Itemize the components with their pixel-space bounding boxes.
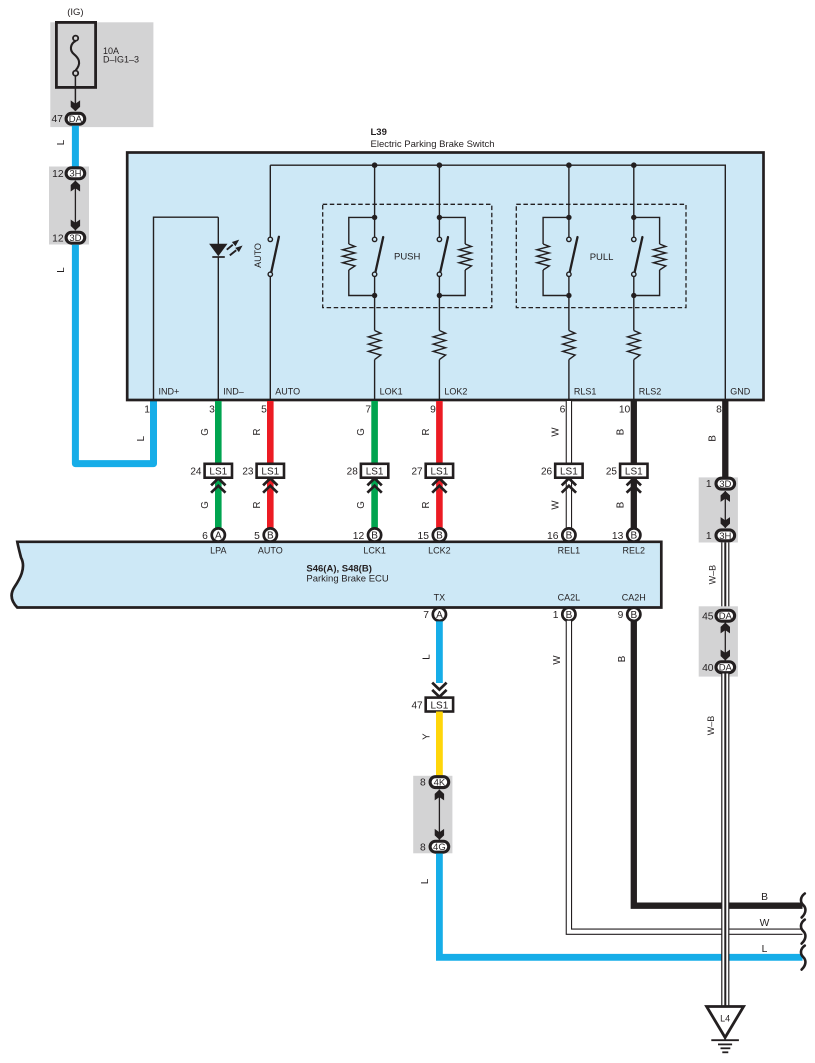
svg-text:B: B xyxy=(617,656,628,662)
svg-text:LS1: LS1 xyxy=(209,466,227,477)
svg-text:LS1: LS1 xyxy=(560,466,578,477)
pin 15 B xyxy=(418,528,446,541)
label G xyxy=(200,428,211,436)
label R xyxy=(421,502,432,509)
pin number 8 xyxy=(716,405,722,416)
label Parking Brake ECU xyxy=(306,573,389,584)
node RLS1 top xyxy=(566,215,571,220)
label W-B xyxy=(706,716,716,736)
label G xyxy=(356,428,367,436)
svg-text:26: 26 xyxy=(541,466,553,477)
pin label GND xyxy=(730,387,751,397)
pin label CA2H xyxy=(622,593,646,603)
svg-text:DA: DA xyxy=(719,663,733,674)
svg-text:6: 6 xyxy=(202,531,208,542)
svg-text:4G: 4G xyxy=(433,842,446,853)
svg-text:G: G xyxy=(200,428,211,436)
label B xyxy=(617,656,628,662)
svg-text:B: B xyxy=(761,892,768,903)
svg-text:CA2H: CA2H xyxy=(622,593,646,603)
resistor parallel RLS2 xyxy=(634,217,666,295)
node bus-LOK1 xyxy=(372,162,378,168)
svg-text:9: 9 xyxy=(430,405,436,416)
svg-text:RLS2: RLS2 xyxy=(639,387,662,397)
switch RLS2 xyxy=(632,237,643,276)
svg-text:LCK1: LCK1 xyxy=(363,546,386,556)
connector 23 LS1 xyxy=(242,464,284,493)
svg-text:G: G xyxy=(356,428,367,436)
connector 24 LS1 xyxy=(190,464,232,493)
wire LOK1 upper xyxy=(374,165,376,237)
svg-text:10: 10 xyxy=(619,405,631,416)
label B xyxy=(708,435,719,441)
svg-text:B: B xyxy=(566,610,573,621)
pin label LCK2 xyxy=(428,546,451,556)
svg-text:A: A xyxy=(436,610,443,621)
svg-text:LS1: LS1 xyxy=(366,466,384,477)
svg-text:47: 47 xyxy=(51,114,63,125)
svg-text:3D: 3D xyxy=(69,233,81,244)
wire W-B 3H to 45DA xyxy=(721,543,729,610)
svg-text:5: 5 xyxy=(261,405,267,416)
break symbol W xyxy=(801,920,805,944)
label W xyxy=(550,500,561,510)
wire L blue TX to LS1 xyxy=(436,621,443,683)
svg-text:B: B xyxy=(708,435,719,441)
svg-text:AUTO: AUTO xyxy=(253,243,263,268)
wire B black CA2H to break xyxy=(634,621,803,905)
connector 47 LS1 xyxy=(411,683,453,712)
svg-text:B: B xyxy=(630,531,637,542)
svg-text:L39: L39 xyxy=(371,127,387,138)
svg-text:IND+: IND+ xyxy=(159,387,180,397)
svg-text:LCK2: LCK2 xyxy=(428,546,451,556)
wire RLS2 lower xyxy=(633,276,635,330)
label R xyxy=(252,429,263,436)
pin label LOK1 xyxy=(380,387,403,397)
pin number 9 xyxy=(430,405,436,416)
svg-text:47: 47 xyxy=(411,700,423,711)
svg-text:TX: TX xyxy=(434,593,446,603)
svg-text:B: B xyxy=(630,610,637,621)
svg-text:B: B xyxy=(436,531,443,542)
wire IND+ branch xyxy=(154,217,219,400)
node bus-RLS2 xyxy=(631,162,637,168)
fuse 10A D-IG1-3 xyxy=(50,22,153,127)
resistor parallel RLS1 xyxy=(537,217,569,295)
pin label LOK2 xyxy=(444,387,467,397)
svg-text:W: W xyxy=(550,427,561,437)
svg-text:G: G xyxy=(200,501,211,509)
pin label REL2 xyxy=(623,546,646,556)
svg-text:45: 45 xyxy=(702,611,714,622)
wire RLS1 to pin xyxy=(568,360,570,400)
svg-text:DA: DA xyxy=(69,114,83,125)
connector 26 LS1 xyxy=(541,464,583,493)
svg-text:LPA: LPA xyxy=(210,546,226,556)
svg-text:1: 1 xyxy=(706,531,712,542)
resistor series RLS2 xyxy=(628,331,640,360)
svg-text:CA2L: CA2L xyxy=(558,593,581,603)
svg-text:D–IG1–3: D–IG1–3 xyxy=(103,54,139,64)
wire RLS2 upper xyxy=(633,165,635,237)
pin 5 B xyxy=(254,528,277,541)
label Electric Parking Brake Switch xyxy=(371,139,495,150)
wire W white LS1 to pin 16B xyxy=(566,477,572,529)
wire LOK2 to pin xyxy=(438,360,440,400)
pin number 3 xyxy=(209,405,215,416)
svg-text:W: W xyxy=(550,500,561,510)
wire R red pin5 to LS1 xyxy=(267,401,274,464)
svg-text:9: 9 xyxy=(618,610,624,621)
pin label IND+ xyxy=(159,387,180,397)
label B xyxy=(615,429,626,435)
svg-text:3: 3 xyxy=(209,405,215,416)
svg-text:12: 12 xyxy=(353,531,365,542)
svg-text:Parking Brake ECU: Parking Brake ECU xyxy=(306,573,389,584)
svg-text:L: L xyxy=(56,139,67,145)
svg-text:RLS1: RLS1 xyxy=(574,387,597,397)
pin label CA2L xyxy=(558,593,581,603)
svg-text:1: 1 xyxy=(706,479,712,490)
svg-text:7: 7 xyxy=(365,405,371,416)
node RLS2 top xyxy=(631,215,636,220)
label R xyxy=(421,429,432,436)
wire LOK1 to pin xyxy=(374,360,376,400)
svg-text:R: R xyxy=(252,502,263,509)
svg-text:7: 7 xyxy=(423,610,429,621)
pin label IND&#8211; xyxy=(223,387,244,397)
wire AUTO upper xyxy=(269,165,271,237)
wire W white CA2L to break xyxy=(569,621,803,932)
pin 13 B xyxy=(612,528,640,541)
ground L4 xyxy=(707,1007,744,1053)
resistor parallel LOK1 xyxy=(343,217,375,295)
label G xyxy=(356,501,367,509)
switch LOK2 xyxy=(437,237,448,276)
wire L blue DA to 3H xyxy=(72,126,79,168)
wire R red LS1 to pin 15B xyxy=(436,477,443,529)
wire LOK1 lower xyxy=(374,276,376,330)
svg-text:27: 27 xyxy=(411,466,423,477)
wire R red LS1 to pin 5B xyxy=(267,477,274,529)
label L xyxy=(136,435,147,441)
svg-text:A: A xyxy=(215,531,222,542)
svg-text:W: W xyxy=(760,918,770,929)
node RLS1 bottom xyxy=(566,293,571,298)
label L39 xyxy=(371,127,387,138)
wire RLS1 lower xyxy=(568,276,570,330)
wire G green LS1 to pin 6A xyxy=(215,477,222,529)
wire L blue 3D to pin 1 IND+ xyxy=(75,245,153,464)
wire Y yellow LS1 to 4K xyxy=(436,712,443,778)
resistor series RLS1 xyxy=(563,331,575,360)
component box L39 Electric Parking Brake Switch xyxy=(127,153,763,401)
svg-text:LOK2: LOK2 xyxy=(444,387,467,397)
svg-text:12: 12 xyxy=(52,233,64,244)
svg-text:L4: L4 xyxy=(720,1014,730,1024)
switch RLS1 xyxy=(567,237,578,276)
label L xyxy=(420,878,431,884)
svg-text:16: 16 xyxy=(547,531,559,542)
pin number 1 xyxy=(144,405,150,416)
node bus-RLS1 xyxy=(566,162,572,168)
svg-text:8: 8 xyxy=(420,778,426,789)
svg-text:(IG): (IG) xyxy=(67,7,83,18)
svg-text:Y: Y xyxy=(422,733,433,740)
svg-text:8: 8 xyxy=(420,842,426,853)
svg-text:12: 12 xyxy=(52,169,64,180)
svg-text:IND–: IND– xyxy=(223,387,244,397)
svg-text:1: 1 xyxy=(144,405,150,416)
svg-text:PUSH: PUSH xyxy=(394,252,421,263)
svg-text:25: 25 xyxy=(606,466,618,477)
svg-text:15: 15 xyxy=(418,531,430,542)
pin 6 A xyxy=(202,528,225,541)
svg-text:W–B: W–B xyxy=(706,716,716,736)
svg-text:28: 28 xyxy=(347,466,359,477)
svg-text:13: 13 xyxy=(612,531,624,542)
label S46(A), S48(B) xyxy=(306,564,371,575)
svg-text:W–B: W–B xyxy=(707,565,717,585)
label W xyxy=(552,655,563,665)
dashed group PUSH xyxy=(323,204,492,307)
wire LED anode xyxy=(217,217,219,244)
node LOK2 top xyxy=(437,215,442,220)
power source node (IG) xyxy=(67,7,83,18)
svg-text:B: B xyxy=(566,531,573,542)
connector pair 8 4K - 8 4G xyxy=(413,776,452,854)
pin label RLS1 xyxy=(574,387,597,397)
svg-text:R: R xyxy=(421,429,432,436)
pin number 10 xyxy=(619,405,631,416)
node RLS2 bottom xyxy=(631,293,636,298)
wire B black LS1 to pin 13B xyxy=(631,477,637,529)
wire internal top bus xyxy=(270,165,725,400)
wire W white pin6 to LS1 xyxy=(566,401,572,464)
label Y xyxy=(422,733,433,740)
svg-text:L: L xyxy=(420,878,431,884)
wire AUTO lower xyxy=(269,276,271,400)
svg-text:GND: GND xyxy=(730,387,751,397)
value label 10A D-IG1-3 xyxy=(103,46,139,65)
svg-text:40: 40 xyxy=(702,663,714,674)
wire LOK2 upper xyxy=(438,165,440,237)
svg-text:23: 23 xyxy=(242,466,254,477)
wire fuse to connector DA xyxy=(71,76,80,111)
pin 7 A xyxy=(423,608,446,621)
pin label LPA xyxy=(210,546,226,556)
svg-text:REL2: REL2 xyxy=(623,546,646,556)
svg-text:R: R xyxy=(421,502,432,509)
node bus-LOK2 xyxy=(437,162,443,168)
LED indicator D1 xyxy=(209,240,243,257)
wire LED cathode to IND- xyxy=(217,257,219,400)
svg-text:3H: 3H xyxy=(719,531,731,542)
svg-text:LS1: LS1 xyxy=(261,466,279,477)
node LOK1 bottom xyxy=(372,293,377,298)
svg-text:L: L xyxy=(422,654,433,660)
pin label TX xyxy=(434,593,446,603)
resistor series LOK2 xyxy=(433,331,445,360)
switch LOK1 xyxy=(372,237,383,276)
pin label REL1 xyxy=(558,546,581,556)
svg-text:B: B xyxy=(267,531,274,542)
svg-text:6: 6 xyxy=(560,405,566,416)
svg-text:5: 5 xyxy=(254,531,260,542)
connector 25 LS1 xyxy=(606,464,648,493)
svg-text:PULL: PULL xyxy=(590,252,614,263)
wire L blue 4G to break xyxy=(439,854,802,958)
wire B black pin10 to LS1 xyxy=(631,401,637,464)
break symbol L xyxy=(801,946,805,970)
pin 12 B xyxy=(353,528,381,541)
label L xyxy=(762,944,768,955)
label R xyxy=(252,502,263,509)
wire G green pin3 to LS1 xyxy=(215,401,222,464)
svg-text:LS1: LS1 xyxy=(431,700,449,711)
svg-text:24: 24 xyxy=(190,466,202,477)
svg-text:1: 1 xyxy=(553,610,559,621)
wire G green LS1 to pin 12B xyxy=(371,477,378,529)
pin number 6 xyxy=(560,405,566,416)
break symbol B xyxy=(801,894,805,918)
label W xyxy=(760,918,770,929)
svg-text:Electric Parking Brake Switch: Electric Parking Brake Switch xyxy=(371,139,495,150)
svg-text:REL1: REL1 xyxy=(558,546,581,556)
connector 27 LS1 xyxy=(411,464,453,493)
label L xyxy=(56,267,67,273)
label L xyxy=(422,654,433,660)
svg-text:L: L xyxy=(56,267,67,273)
pin 16 B xyxy=(547,528,575,541)
node LOK1 top xyxy=(372,215,377,220)
svg-text:LS1: LS1 xyxy=(625,466,643,477)
svg-text:LS1: LS1 xyxy=(431,466,449,477)
label W-B xyxy=(707,565,717,585)
wire G green pin7 to LS1 xyxy=(371,401,378,464)
svg-text:AUTO: AUTO xyxy=(275,387,300,397)
svg-text:B: B xyxy=(371,531,378,542)
label B xyxy=(761,892,768,903)
pin 1 B xyxy=(553,608,576,621)
switch AUTO xyxy=(268,237,279,277)
svg-text:B: B xyxy=(615,429,626,435)
connector 47 DA xyxy=(51,113,84,125)
svg-text:3D: 3D xyxy=(719,479,731,490)
label W xyxy=(550,427,561,437)
wire W-B 40DA to ground xyxy=(721,674,729,1008)
svg-text:AUTO: AUTO xyxy=(258,546,283,556)
label PUSH xyxy=(394,252,421,263)
resistor series LOK1 xyxy=(368,331,380,360)
resistor parallel LOK2 xyxy=(439,217,471,295)
node LOK2 bottom xyxy=(437,293,442,298)
pin label AUTO xyxy=(275,387,300,397)
svg-text:3H: 3H xyxy=(69,169,81,180)
dashed group PULL xyxy=(516,204,686,307)
pin label LCK1 xyxy=(363,546,386,556)
svg-text:8: 8 xyxy=(716,405,722,416)
pin number 7 xyxy=(365,405,371,416)
label L xyxy=(56,139,67,145)
label G xyxy=(200,501,211,509)
svg-text:B: B xyxy=(615,502,626,508)
svg-text:G: G xyxy=(356,501,367,509)
connector pair 12 3H - 12 3D xyxy=(49,167,89,245)
label B xyxy=(615,502,626,508)
svg-text:R: R xyxy=(252,429,263,436)
label AUTO xyxy=(253,243,263,268)
connector pair 1 3D - 1 3H xyxy=(699,477,738,542)
pin label AUTO xyxy=(258,546,283,556)
svg-text:L: L xyxy=(762,944,768,955)
connector 28 LS1 xyxy=(347,464,389,493)
connector pair 45 DA - 40 DA xyxy=(699,606,738,676)
svg-text:DA: DA xyxy=(719,611,733,622)
wire R red pin9 to LS1 xyxy=(436,401,443,464)
component box S46(A) S48(B) Parking Brake ECU xyxy=(12,542,662,608)
wire RLS1 upper xyxy=(568,165,570,237)
wire RLS2 to pin xyxy=(633,360,635,400)
label PULL xyxy=(590,252,614,263)
svg-text:W: W xyxy=(552,655,563,665)
pin number 5 xyxy=(261,405,267,416)
svg-text:L: L xyxy=(136,435,147,441)
svg-text:4K: 4K xyxy=(434,778,446,789)
wire LOK2 lower xyxy=(438,276,440,330)
pin 9 B xyxy=(618,608,641,621)
pin label RLS2 xyxy=(639,387,662,397)
svg-text:LOK1: LOK1 xyxy=(380,387,403,397)
wire B black pin8 GND to 3D xyxy=(722,401,728,478)
